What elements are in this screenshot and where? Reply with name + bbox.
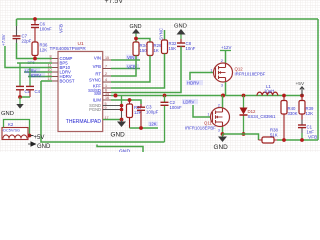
resistor R38 xyxy=(259,137,278,143)
svg-text:11: 11 xyxy=(48,64,52,68)
wire VFB bottom xyxy=(277,139,318,141)
resistor R37 xyxy=(127,100,133,128)
wire R35 to SYNC xyxy=(111,56,150,83)
wire COMP node xyxy=(17,43,53,59)
node junction R39 top xyxy=(300,94,304,98)
svg-text:GND: GND xyxy=(37,144,51,150)
pin stubs right xyxy=(103,60,111,100)
svg-text:PGND: PGND xyxy=(89,107,101,112)
ground IC xyxy=(121,120,123,122)
ground Q11 xyxy=(222,134,224,137)
svg-text:51K: 51K xyxy=(270,132,278,137)
svg-text:+5V: +5V xyxy=(296,81,305,87)
node junctions gnd column xyxy=(120,104,124,108)
svg-text:10: 10 xyxy=(47,68,51,72)
svg-text:7: 7 xyxy=(105,65,107,69)
wire +12V to Q12 drain xyxy=(225,51,227,64)
svg-text:VFB: VFB xyxy=(308,135,317,141)
node junction R37 top xyxy=(128,98,132,102)
wire Q11 source down xyxy=(222,127,224,134)
node junction R36 bottom xyxy=(33,57,37,61)
svg-text:12K: 12K xyxy=(306,111,314,116)
svg-text:2: 2 xyxy=(218,104,220,108)
svg-text:K2: K2 xyxy=(8,122,14,127)
svg-text:+7.5V: +7.5V xyxy=(105,0,124,5)
node junction D12 top xyxy=(242,94,246,98)
node junction C1 bottom xyxy=(300,138,304,142)
svg-text:100nF: 100nF xyxy=(170,105,183,110)
svg-text:GND: GND xyxy=(1,111,14,117)
svg-text:330K: 330K xyxy=(288,111,298,116)
wire Q11 source row to jog xyxy=(223,134,259,140)
svg-text:22pF: 22pF xyxy=(22,39,32,44)
svg-text:THERMAL/PAD: THERMAL/PAD xyxy=(66,119,102,125)
svg-text:SYNC: SYNC xyxy=(159,28,164,40)
node junction gnd1 xyxy=(134,37,138,41)
wire VFB rail top xyxy=(17,18,319,20)
pin THERMAL/PAD xyxy=(103,119,122,121)
svg-text:12K: 12K xyxy=(149,122,157,127)
wire LDRV stub with label xyxy=(24,71,52,73)
svg-text:1: 1 xyxy=(211,69,213,73)
wire BP5 row xyxy=(17,62,52,64)
resistor R35 xyxy=(147,42,153,56)
svg-text:GND: GND xyxy=(130,24,142,30)
node junction C3 bottom xyxy=(139,126,143,130)
resistor R39 xyxy=(299,96,305,120)
svg-text:15K: 15K xyxy=(169,46,177,51)
wire HDRV to Q12 gate xyxy=(190,73,214,81)
wire Q11 drain to bus xyxy=(222,96,224,108)
svg-text:VFB: VFB xyxy=(127,64,136,69)
svg-text:8: 8 xyxy=(49,55,51,59)
capacitor C3 xyxy=(137,104,145,128)
wire SW bus xyxy=(111,95,302,97)
capacitor C8 xyxy=(177,39,185,50)
wire SW to gnd column xyxy=(121,96,123,106)
svg-text:17: 17 xyxy=(105,116,109,120)
wire VFB rail right xyxy=(317,19,319,140)
svg-text:VFB: VFB xyxy=(93,64,101,69)
resistor R36 xyxy=(32,40,38,59)
svg-text:100nF: 100nF xyxy=(40,27,53,32)
svg-text:12K: 12K xyxy=(40,48,48,53)
power flag +5V relay xyxy=(30,135,34,137)
resistor R34 xyxy=(133,42,139,60)
node junction relay pin xyxy=(28,134,32,138)
svg-text:IRFR1018EPBF: IRFR1018EPBF xyxy=(185,126,216,131)
svg-text:3: 3 xyxy=(221,84,223,88)
wire gnd bus R37 C3 xyxy=(130,127,159,129)
capacitor C5 xyxy=(19,63,21,86)
transistor Q11 xyxy=(211,108,230,128)
svg-text:VIN: VIN xyxy=(94,55,101,60)
svg-text:C4: C4 xyxy=(35,89,41,94)
wire BOOST loop xyxy=(41,81,165,142)
net label HDRV at Q12 gate xyxy=(186,80,203,85)
svg-text:100μF: 100μF xyxy=(146,110,159,115)
svg-text:ILIM: ILIM xyxy=(93,98,102,103)
wire C8 to SS/SD xyxy=(111,47,181,93)
wire R34 to RT xyxy=(111,56,136,77)
svg-text:1K: 1K xyxy=(154,48,159,53)
svg-text:-DC5V/SG: -DC5V/SG xyxy=(2,129,20,133)
power flag +5V xyxy=(300,87,304,96)
svg-text:SW: SW xyxy=(94,91,102,96)
svg-text:GND: GND xyxy=(214,144,229,151)
node junction R40 top xyxy=(282,94,286,98)
svg-text:BOOST: BOOST xyxy=(60,79,75,84)
svg-text:SYNC: SYNC xyxy=(89,77,101,82)
diode D12 xyxy=(243,96,245,135)
svg-text:13: 13 xyxy=(47,73,51,77)
node junction D12 bottom xyxy=(242,132,246,136)
svg-text:GND: GND xyxy=(119,150,131,153)
node junction Q11 source xyxy=(221,132,225,136)
IC U1 TPS40057PWPR xyxy=(58,52,103,132)
wire left port to BP10 row xyxy=(5,46,52,68)
svg-text:TPS40057PWPR: TPS40057PWPR xyxy=(50,46,87,51)
wire ILIM row xyxy=(111,100,141,104)
pins SGND PGND xyxy=(103,106,122,120)
svg-text:IRFR1018EPBF: IRFR1018EPBF xyxy=(235,72,266,77)
svg-text:VFB: VFB xyxy=(59,24,64,33)
transistor Q12 xyxy=(214,63,233,82)
svg-text:3: 3 xyxy=(49,59,51,63)
wire Q12 source to bus xyxy=(225,82,227,96)
wire VFB rail left drop xyxy=(16,19,18,26)
svg-text:1: 1 xyxy=(105,84,107,88)
resistor R32 xyxy=(162,40,168,54)
net label VFB xyxy=(111,68,140,70)
net label 12K bus xyxy=(148,122,158,127)
pin stubs left xyxy=(52,59,58,82)
svg-text:3: 3 xyxy=(218,129,220,133)
svg-text:SS34_C83961: SS34_C83961 xyxy=(248,114,277,119)
wire LDRV to Q11 gate xyxy=(193,105,211,117)
svg-text:+12V: +12V xyxy=(221,45,231,50)
net label VIN xyxy=(111,59,140,61)
svg-text:1nF: 1nF xyxy=(307,130,315,135)
wire relay top loop xyxy=(4,120,30,136)
svg-text:RT: RT xyxy=(95,71,101,76)
svg-text:2: 2 xyxy=(221,59,223,63)
ground flag relay xyxy=(28,143,31,145)
capacitor C7 xyxy=(16,26,18,43)
inductor L1 xyxy=(257,92,278,95)
svg-text:9: 9 xyxy=(105,106,107,110)
svg-text:GND: GND xyxy=(174,24,187,30)
svg-text:1: 1 xyxy=(208,113,210,117)
svg-text:+5V: +5V xyxy=(34,135,45,141)
capacitor C1 xyxy=(301,120,303,134)
svg-text:+7.5V: +7.5V xyxy=(1,34,6,46)
relay K2 xyxy=(2,128,28,140)
svg-text:HDRV: HDRV xyxy=(187,81,199,86)
capacitor C4 xyxy=(29,68,31,87)
wire R32 to KFF xyxy=(111,54,165,89)
svg-text:15: 15 xyxy=(105,56,109,60)
node junction C5 bottom xyxy=(18,95,22,99)
svg-text:10nF: 10nF xyxy=(186,46,196,51)
svg-text:2: 2 xyxy=(105,72,107,76)
node junction SW Q12/Q11 xyxy=(221,94,225,98)
wire HDRV stub with label xyxy=(28,76,52,78)
svg-text:LDRV: LDRV xyxy=(183,100,195,105)
ground left caps xyxy=(19,97,21,104)
wire cap gnd bus xyxy=(20,96,30,98)
svg-text:GND: GND xyxy=(111,132,126,139)
wire stub small bottom xyxy=(97,145,143,153)
node junction C6 top xyxy=(33,17,37,21)
node junction C2 top xyxy=(163,94,167,98)
node SW pin dot xyxy=(114,94,118,98)
wire R32 top stub xyxy=(164,30,166,40)
capacitor C2 xyxy=(164,96,166,143)
capacitor C6 xyxy=(31,19,39,40)
svg-text:HDRV: HDRV xyxy=(29,73,41,78)
svg-text:10μH: 10μH xyxy=(264,89,274,94)
node junction R40 bottom xyxy=(282,138,286,142)
svg-text:4: 4 xyxy=(105,78,107,82)
svg-text:16: 16 xyxy=(105,96,109,100)
wire gnd1 to resistor tops xyxy=(136,39,150,43)
resistor R40 xyxy=(281,96,287,141)
net label LDRV at Q11 gate xyxy=(182,99,198,104)
